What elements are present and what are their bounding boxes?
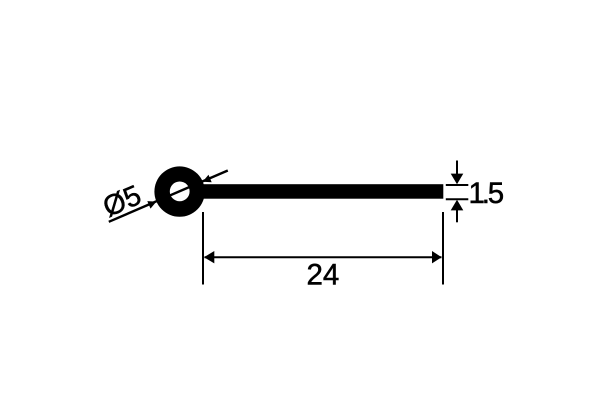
profile bulb outer circle [154, 166, 204, 216]
upper arrowhead pointing down [451, 174, 464, 185]
right extension line (24 dim) [442, 212, 444, 285]
profile flat strip (1.5 thick bar) [195, 184, 443, 199]
svg-text:5: 5 [488, 177, 504, 210]
leader arrowhead lower-left (points up-right at circle edge) [147, 201, 156, 209]
dimension line 24 [205, 256, 442, 258]
leader arrowhead upper-right (points down-left at circle edge) [203, 175, 212, 183]
left arrowhead pointing left [204, 251, 214, 263]
extension tick at bar top edge (1.5 dim) [446, 184, 469, 186]
profile bulb inner hole [170, 182, 190, 202]
diameter leader line Ø5 [109, 171, 228, 222]
extension tick at bar bottom edge (1.5 dim) [446, 198, 469, 200]
lower arrow line of 1.5 dim [456, 209, 458, 222]
lower arrowhead pointing up [451, 200, 464, 211]
left extension line (24 dim) [202, 212, 204, 285]
svg-text:24: 24 [306, 258, 339, 291]
right arrowhead pointing right [432, 251, 442, 263]
upper arrow line of 1.5 dim [456, 161, 458, 176]
